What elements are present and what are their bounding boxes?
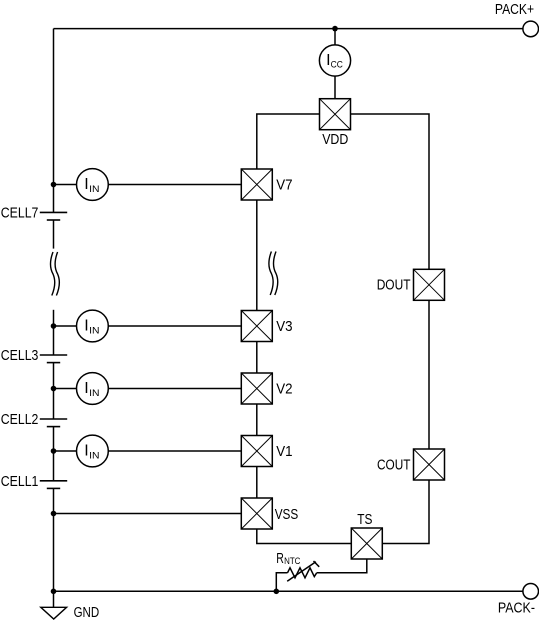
wire VSS to TS pin bbox=[257, 529, 352, 544]
break mark left rail bbox=[51, 252, 60, 296]
pin V3 bbox=[241, 311, 272, 342]
pin VDD bbox=[320, 99, 351, 130]
svg-text:PACK-: PACK- bbox=[498, 600, 535, 616]
wire left rail top segment bbox=[53, 29, 55, 213]
junction CELL1 top node bbox=[51, 448, 57, 454]
svg-text:PACK+: PACK+ bbox=[495, 2, 534, 18]
battery CELL2 bbox=[40, 419, 67, 427]
junction CELL3 top node bbox=[51, 323, 57, 329]
wire TS to RNTC bbox=[317, 559, 367, 573]
junction GND node bbox=[51, 589, 57, 595]
svg-text:DOUT: DOUT bbox=[377, 278, 411, 294]
wire V3 to V2 bbox=[256, 342, 258, 374]
junction RNTC bottom rail bbox=[274, 589, 280, 595]
svg-text:COUT: COUT bbox=[377, 457, 411, 473]
junction CELL7 top node bbox=[51, 182, 57, 188]
pin V2 bbox=[241, 373, 272, 404]
terminal PACK- bbox=[523, 584, 539, 600]
junction CELL2 top node bbox=[51, 386, 57, 392]
wire IIN7 to V7 pin bbox=[108, 184, 241, 186]
svg-text:CC: CC bbox=[331, 59, 343, 69]
resistor RNTC bbox=[287, 561, 319, 581]
svg-text:V3: V3 bbox=[276, 319, 292, 335]
svg-text:IN: IN bbox=[89, 184, 99, 194]
svg-text:V1: V1 bbox=[276, 444, 292, 460]
svg-text:CELL3: CELL3 bbox=[1, 348, 39, 364]
battery CELL3 bbox=[40, 355, 67, 363]
wire CELL3 to CELL2 node bbox=[53, 363, 55, 419]
wire COUT to TS pin bbox=[382, 480, 429, 544]
wire CELL1 to bottom rail bbox=[53, 488, 55, 591]
svg-text:NTC: NTC bbox=[284, 556, 301, 566]
wire DOUT to COUT bbox=[428, 300, 430, 449]
terminal PACK+ bbox=[523, 21, 539, 37]
svg-text:R: R bbox=[276, 551, 284, 567]
pin DOUT bbox=[414, 269, 445, 300]
current source ICC bbox=[319, 45, 350, 76]
wire RNTC to bottom rail bbox=[276, 573, 287, 592]
value label RNTC bbox=[276, 551, 300, 567]
svg-text:IN: IN bbox=[89, 450, 99, 460]
svg-text:V2: V2 bbox=[276, 382, 292, 398]
pin V1 bbox=[241, 436, 272, 467]
svg-text:CELL2: CELL2 bbox=[1, 412, 39, 428]
current source IIN (row V1) bbox=[77, 435, 109, 467]
svg-text:IN: IN bbox=[89, 388, 99, 398]
pin COUT bbox=[414, 449, 445, 480]
junction VSS row node bbox=[51, 511, 57, 517]
svg-text:TS: TS bbox=[357, 512, 372, 528]
current source IIN (row V2) bbox=[77, 373, 109, 405]
wire IIN3 to V3 pin bbox=[108, 325, 241, 327]
svg-text:IN: IN bbox=[89, 325, 99, 335]
pin TS bbox=[351, 528, 382, 559]
wire IIN1 to V1 pin bbox=[108, 450, 241, 452]
wire node to VSS pin bbox=[54, 513, 242, 515]
battery CELL1 bbox=[40, 481, 67, 489]
wire PACK+ top rail bbox=[54, 28, 523, 30]
wire junction to ICC bbox=[334, 29, 336, 45]
ground bbox=[41, 607, 67, 619]
wire ICC to VDD pin bbox=[334, 76, 336, 99]
wire node to IIN1 bbox=[54, 450, 77, 452]
svg-text:GND: GND bbox=[74, 605, 100, 620]
wire node to IIN2 bbox=[54, 388, 77, 390]
wire CELL7 bottom to break bbox=[53, 220, 55, 249]
svg-text:VSS: VSS bbox=[275, 507, 299, 523]
svg-text:CELL1: CELL1 bbox=[1, 474, 39, 490]
current source IIN (row V3) bbox=[77, 310, 109, 342]
current source IIN (row V7) bbox=[77, 169, 109, 201]
wire PACK- bottom rail bbox=[54, 590, 523, 592]
wire CELL2 to CELL1 node bbox=[53, 427, 55, 481]
pin V7 bbox=[241, 169, 272, 200]
pin VSS bbox=[241, 498, 272, 529]
wire V2 to V1 bbox=[256, 404, 258, 436]
break mark V column bbox=[269, 252, 278, 296]
svg-text:I: I bbox=[84, 380, 88, 397]
wire V7 to V3 (V column with break beside) bbox=[256, 200, 258, 311]
wire node to IIN3 bbox=[54, 325, 77, 327]
wire V1 to VSS bbox=[256, 467, 258, 499]
svg-text:I: I bbox=[84, 318, 88, 335]
wire GND stub bbox=[53, 591, 55, 607]
svg-text:I: I bbox=[84, 176, 88, 193]
svg-text:V7: V7 bbox=[276, 178, 292, 194]
junction top rail to ICC bbox=[332, 26, 338, 32]
wire VDD to right rail down to DOUT bbox=[351, 114, 430, 269]
battery CELL7 bbox=[40, 212, 67, 220]
svg-text:VDD: VDD bbox=[322, 132, 348, 148]
svg-text:I: I bbox=[84, 443, 88, 460]
wire node to IIN7 bbox=[54, 184, 77, 186]
wire VDD to V column bbox=[257, 114, 320, 169]
svg-text:CELL7: CELL7 bbox=[1, 206, 39, 222]
wire IIN2 to V2 pin bbox=[108, 388, 241, 390]
wire break to CELL3 bbox=[53, 310, 55, 355]
